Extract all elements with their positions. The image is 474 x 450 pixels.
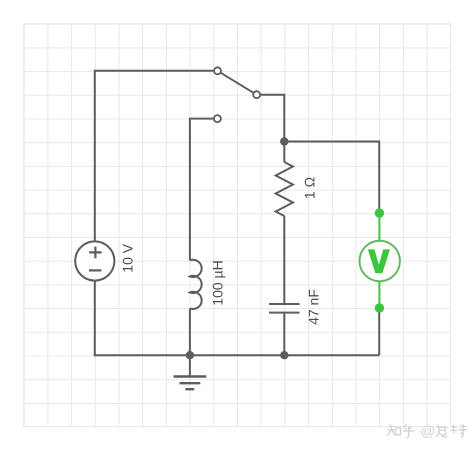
switch SW1 throw terminal 1 bbox=[253, 91, 260, 98]
voltmeter VM1 letter V bbox=[368, 249, 390, 273]
wire bottom rail bbox=[94, 354, 379, 356]
switch SW1 throw terminal 2 bbox=[214, 115, 221, 122]
svg-text:10 V: 10 V bbox=[120, 243, 136, 272]
voltmeter VM1 wire green bbox=[378, 213, 380, 308]
wire voltmeter branch upper gray bbox=[378, 141, 380, 214]
voltage source V1 plus sign bbox=[89, 247, 101, 259]
voltmeter VM1 body bbox=[360, 241, 400, 281]
svg-text:@: @ bbox=[421, 424, 436, 440]
watermark zhihu @pite bbox=[388, 424, 468, 437]
ground bbox=[174, 355, 207, 389]
resistor R1 bbox=[276, 162, 293, 216]
wire resistor top lead bbox=[283, 142, 285, 163]
svg-text:47 nF: 47 nF bbox=[306, 289, 322, 325]
wire switch throw to node A bbox=[260, 95, 284, 142]
wire left vertical V1 bottom bbox=[94, 281, 96, 357]
voltage source V1 bbox=[75, 241, 114, 280]
wire voltmeter branch lower gray bbox=[378, 308, 380, 355]
wire resistor bottom lead to capacitor bbox=[283, 216, 285, 303]
wire inductor bottom to rail bbox=[189, 308, 191, 355]
capacitor C1 plate bottom bbox=[269, 312, 300, 314]
voltage source V1 minus sign bbox=[89, 269, 101, 271]
node B junction dot (inductor/ground) bbox=[186, 351, 194, 359]
node A junction dot bbox=[280, 137, 288, 145]
switch SW1 blade bbox=[221, 73, 254, 93]
wire switch throw2 to inductor top bbox=[190, 119, 214, 261]
svg-text:1 Ω: 1 Ω bbox=[302, 177, 318, 199]
inductor L1 bbox=[190, 260, 202, 309]
voltmeter VM1 terminal dot top bbox=[375, 208, 384, 217]
wire left vertical V1 top bbox=[94, 70, 96, 242]
wire capacitor bottom lead bbox=[283, 314, 285, 356]
svg-text:100 µH: 100 µH bbox=[210, 260, 226, 305]
node C junction dot (capacitor/rail) bbox=[280, 351, 288, 359]
capacitor C1 plate top bbox=[269, 303, 300, 305]
switch SW1 pole terminal bbox=[214, 67, 221, 74]
voltmeter VM1 terminal dot bottom bbox=[375, 303, 384, 312]
wire node A to voltmeter branch bbox=[284, 141, 379, 143]
wire top from V1 to switch pole bbox=[95, 70, 214, 72]
